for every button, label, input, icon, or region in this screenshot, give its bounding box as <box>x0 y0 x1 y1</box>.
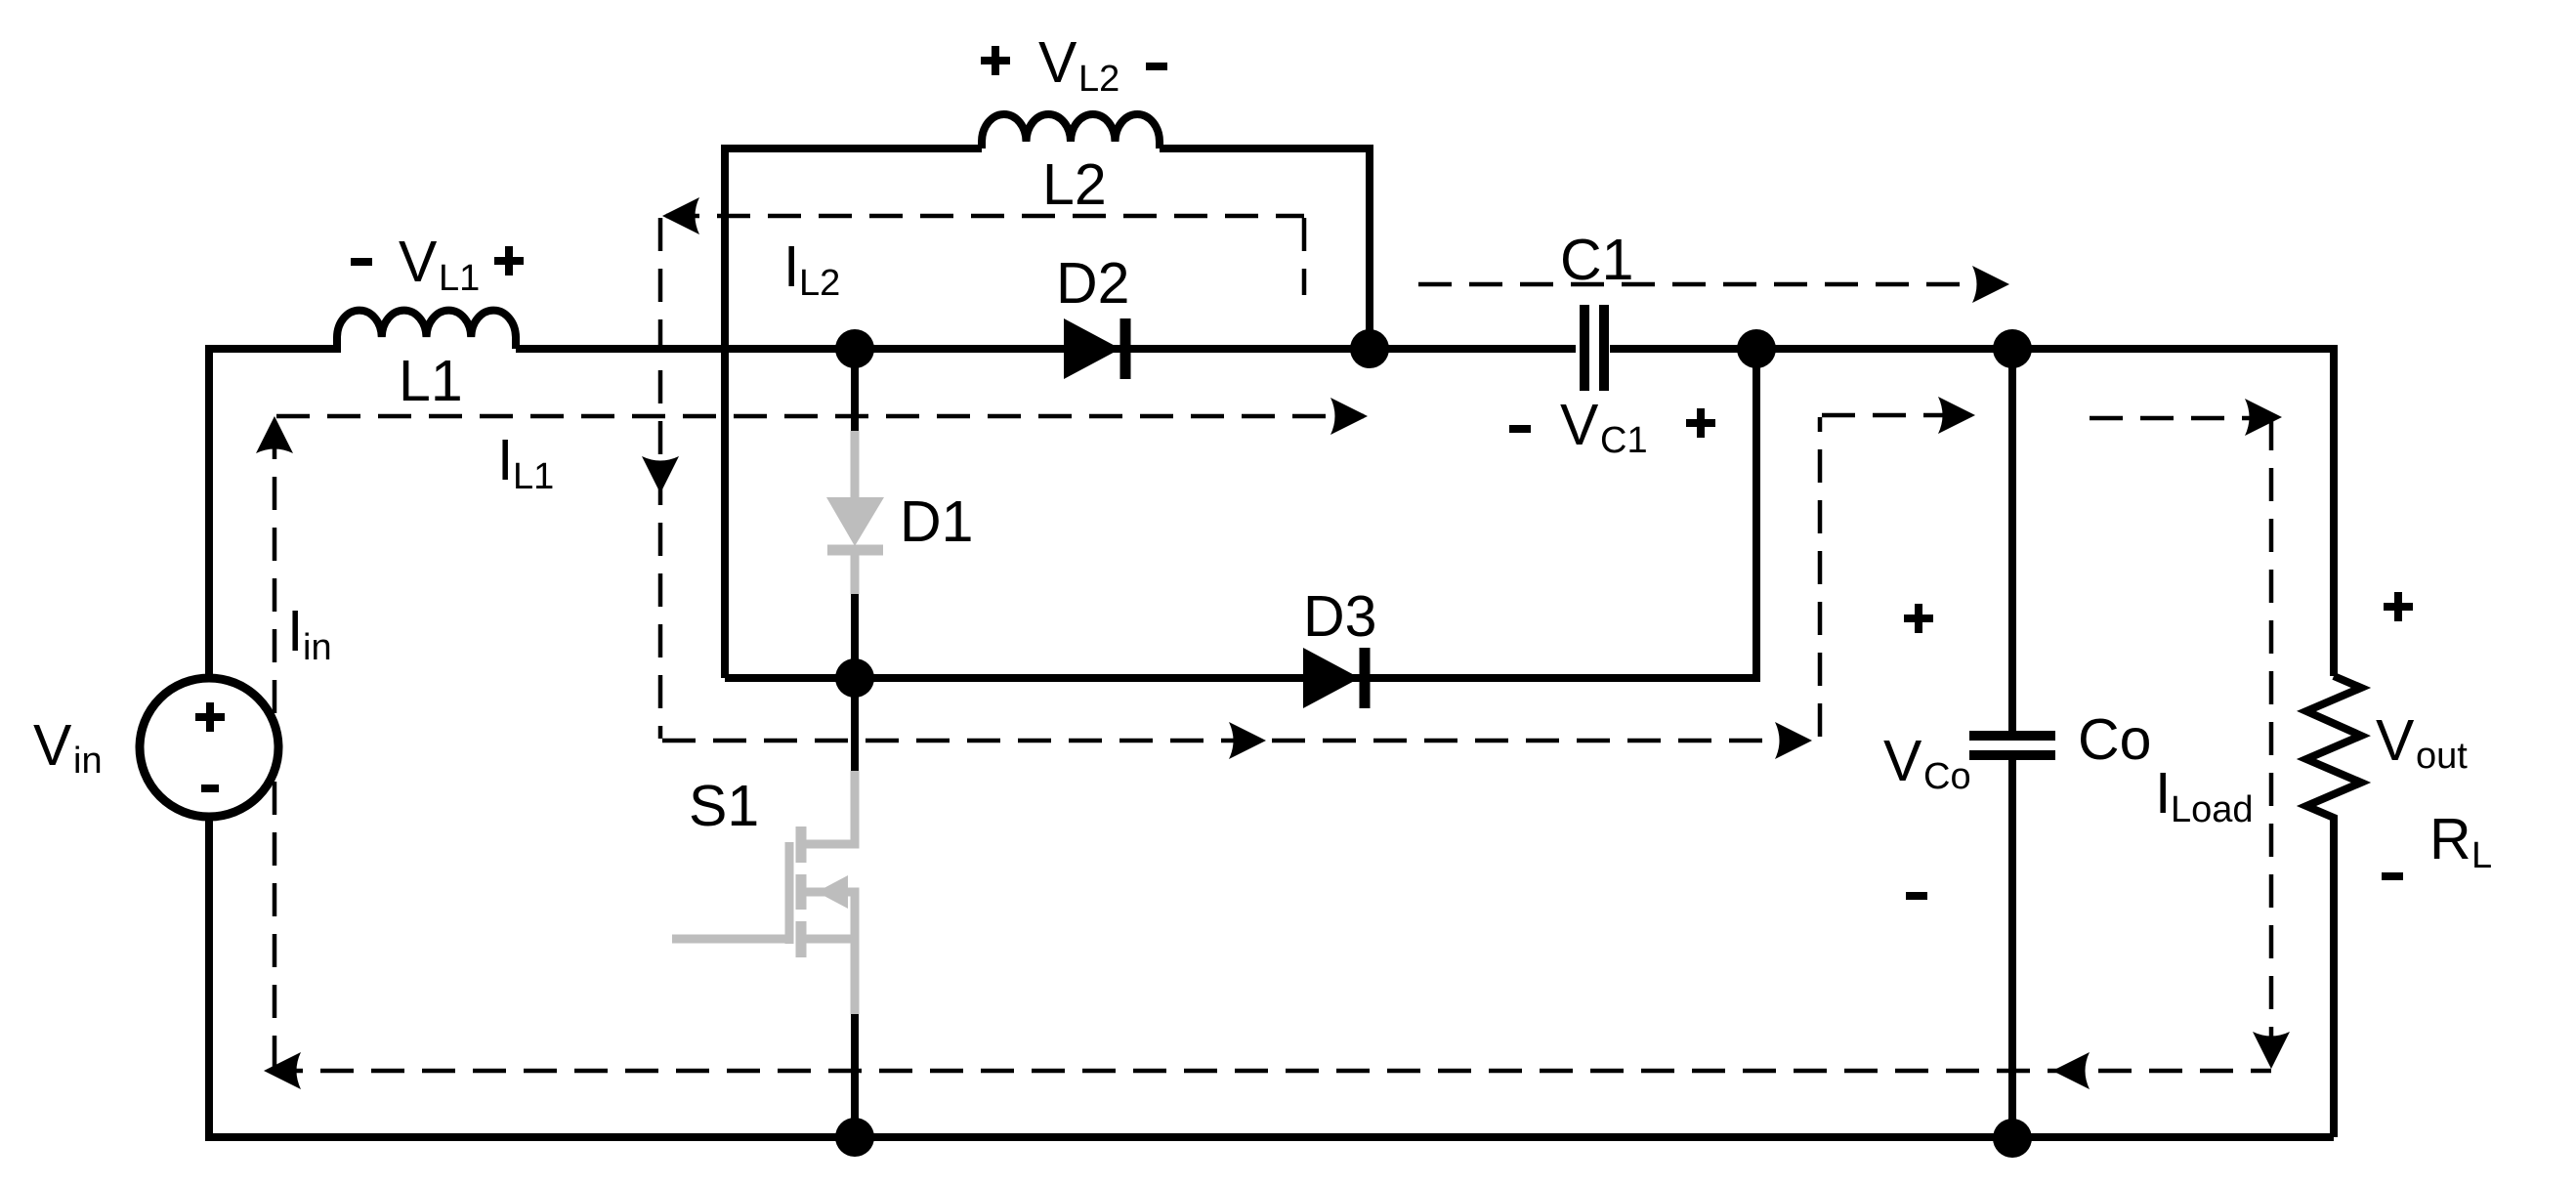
svg-text:I: I <box>2155 761 2171 826</box>
svg-text:out: out <box>2416 736 2468 777</box>
svg-text:L1: L1 <box>399 349 463 413</box>
svg-text:Co: Co <box>2078 707 2151 772</box>
svg-text:L2: L2 <box>1042 152 1107 217</box>
svg-text:D1: D1 <box>900 489 973 554</box>
svg-text:D3: D3 <box>1303 584 1376 649</box>
svg-text:L2: L2 <box>799 263 840 304</box>
svg-text:R: R <box>2429 807 2471 871</box>
svg-text:L1: L1 <box>439 258 480 299</box>
svg-text:Co: Co <box>1923 756 1971 797</box>
svg-text:L1: L1 <box>513 456 554 497</box>
svg-text:L: L <box>2471 835 2492 876</box>
svg-text:C1: C1 <box>1600 420 1648 461</box>
svg-text:I: I <box>783 234 799 299</box>
svg-text:V: V <box>2376 708 2415 773</box>
svg-text:in: in <box>303 627 332 668</box>
svg-text:Load: Load <box>2171 789 2254 830</box>
svg-text:L2: L2 <box>1078 59 1119 100</box>
svg-text:C1: C1 <box>1560 228 1633 292</box>
svg-text:S1: S1 <box>689 774 759 838</box>
svg-text:I: I <box>497 428 513 492</box>
svg-text:V: V <box>1038 30 1077 95</box>
svg-text:I: I <box>287 599 303 663</box>
svg-text:V: V <box>1883 729 1922 793</box>
svg-text:V: V <box>33 713 72 778</box>
svg-text:in: in <box>73 741 103 782</box>
svg-text:V: V <box>399 230 438 294</box>
svg-text:V: V <box>1560 393 1599 457</box>
svg-text:D2: D2 <box>1056 251 1129 316</box>
